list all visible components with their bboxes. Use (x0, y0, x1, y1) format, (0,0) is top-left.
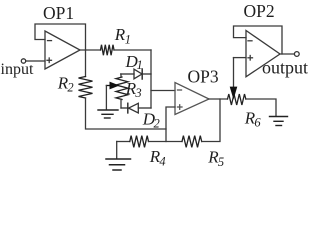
label D2 (142, 109, 160, 130)
wire OP2 +in (234, 57, 247, 59)
label R6 (244, 109, 262, 130)
svg-text:5: 5 (218, 155, 224, 169)
ground (R3 wiper) (98, 110, 118, 118)
wiper arrow of R6 (from OP2 +in) (230, 58, 238, 100)
svg-text:4: 4 (159, 154, 165, 168)
potentiometer R6 (228, 94, 246, 105)
wire OP2 feedback loop (234, 26, 283, 54)
label R1 (114, 25, 131, 46)
svg-text:input: input (1, 61, 34, 78)
wire R1 to node A rail (114, 49, 151, 51)
svg-text:OP1: OP1 (43, 3, 74, 23)
svg-text:output: output (262, 58, 308, 78)
label R4 (149, 147, 166, 168)
label D1 (125, 52, 143, 72)
wire R4 ground lead (117, 141, 130, 143)
label R2 (57, 74, 74, 95)
op-amp OP1 (45, 31, 80, 69)
wire R6 to ground (246, 99, 276, 116)
wire OP3 +in down to R4/R5 junction (166, 107, 175, 142)
wire R2 bottom to node P (86, 98, 167, 129)
svg-text:1: 1 (137, 58, 143, 72)
wire OP3 output (209, 98, 228, 100)
wire OP2 output (280, 53, 294, 55)
svg-text:2: 2 (67, 81, 73, 95)
resistor R5 (182, 136, 202, 148)
op-amp OP3 (175, 83, 209, 115)
node A rail (150, 50, 152, 108)
resistor R2 (79, 50, 93, 98)
label R3 (125, 79, 142, 100)
output terminal (294, 52, 299, 57)
ground (R4) (106, 159, 131, 170)
svg-text:6: 6 (254, 116, 261, 130)
resistor R4 (130, 136, 149, 148)
potentiometer R3 (116, 74, 128, 108)
ground (R6) (270, 117, 288, 126)
diode D2 (121, 103, 151, 113)
wire wiper to ground (105, 86, 107, 110)
wire input to OP1 +in (26, 60, 45, 62)
diode D1 (121, 69, 151, 79)
svg-text:OP3: OP3 (188, 66, 219, 86)
wiper arrow of R3 (106, 82, 119, 90)
wire OP1 output to R1 (80, 49, 101, 51)
label R5 (207, 148, 224, 169)
wire R4 to R5 (149, 141, 183, 143)
wire node A to OP3 -in (151, 90, 175, 92)
svg-text:OP2: OP2 (244, 1, 275, 21)
op-amp OP2 (246, 31, 280, 77)
wire R5 up to OP3 output (202, 99, 220, 142)
wire OP1 feedback loop (35, 24, 86, 50)
resistor R1 (101, 45, 115, 56)
svg-text:3: 3 (134, 86, 141, 100)
svg-text:1: 1 (125, 33, 131, 47)
svg-text:2: 2 (154, 116, 160, 130)
input terminal (21, 59, 25, 63)
